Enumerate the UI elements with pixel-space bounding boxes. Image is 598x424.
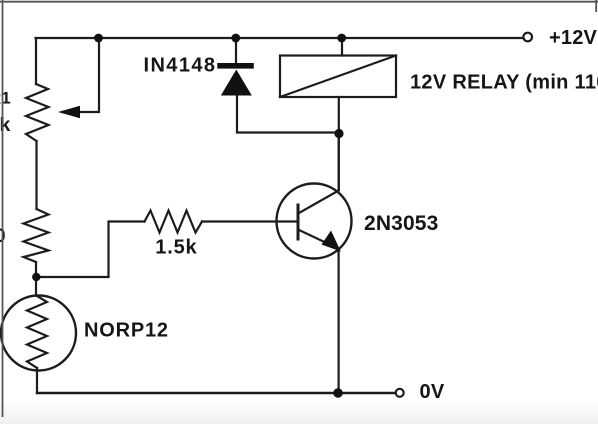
- svg-text:IN4148: IN4148: [144, 55, 217, 77]
- svg-text:1.5k: 1.5k: [155, 236, 197, 258]
- svg-text:k: k: [0, 114, 11, 136]
- svg-text:2N3053: 2N3053: [364, 212, 438, 235]
- svg-text:0V: 0V: [420, 381, 445, 403]
- svg-text:NORP12: NORP12: [84, 320, 169, 342]
- svg-text:12V RELAY (min 110: 12V RELAY (min 110: [410, 72, 598, 94]
- svg-text:+12V: +12V: [549, 27, 598, 49]
